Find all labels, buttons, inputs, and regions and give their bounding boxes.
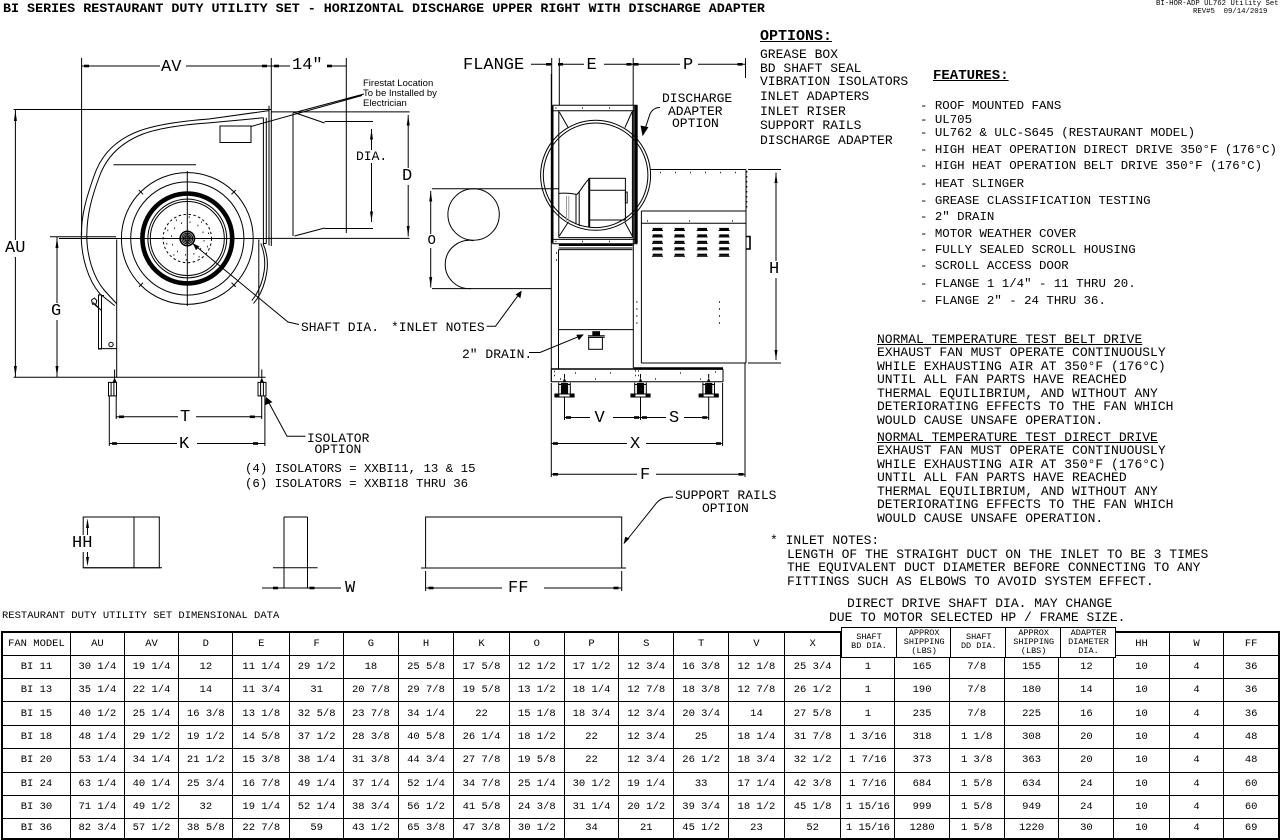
housing body verticals	[551, 74, 633, 382]
dim DIA	[371, 129, 373, 222]
firestat leaders	[251, 94, 364, 127]
dim X	[551, 383, 722, 446]
dim AU	[14, 110, 16, 378]
motor cover	[641, 170, 746, 364]
adapter corner gussets	[559, 112, 632, 236]
drain fitting	[592, 331, 600, 335]
rivet dot columns	[556, 253, 720, 323]
2in drain leader	[529, 335, 583, 353]
W channel section	[273, 517, 318, 568]
scroll top edge	[209, 111, 269, 123]
adapter bottom band	[559, 244, 633, 246]
base line	[14, 376, 266, 378]
pedestal	[117, 240, 259, 378]
dim O	[430, 191, 432, 288]
dim H	[748, 170, 781, 364]
dim V and S	[565, 397, 709, 420]
housing bottom	[551, 368, 633, 370]
hub circles	[180, 231, 194, 245]
base rail	[551, 369, 723, 382]
adapter circle	[541, 120, 651, 230]
dim G	[50, 237, 116, 377]
isolator feet	[109, 382, 117, 396]
shipping header box	[841, 627, 1116, 658]
adapter bottom plate	[552, 239, 637, 243]
title	[3, 2, 765, 15]
dim D extension lines	[268, 112, 410, 238]
dim W	[262, 587, 341, 589]
scroll inner top line	[114, 164, 197, 166]
dim D	[407, 115, 409, 237]
dim FLANGE/E/P line	[531, 63, 746, 65]
discharge adapter top plate	[552, 105, 637, 111]
adapter side bars	[551, 105, 553, 243]
dimensional data table	[1, 631, 1280, 840]
handle	[746, 237, 750, 250]
louver slots	[653, 228, 663, 230]
inlet notes leader	[487, 292, 521, 327]
discharge duct	[325, 122, 373, 229]
dim F	[551, 363, 745, 477]
discharge cone	[293, 113, 325, 236]
scroll right lower curve	[254, 244, 268, 304]
45 deg ticks on outer ring	[139, 190, 236, 287]
motor in circle	[588, 178, 590, 227]
inlet funnel	[559, 179, 590, 194]
dim T	[116, 396, 262, 419]
dim extension verticals	[552, 58, 746, 105]
outlet flange plates	[263, 106, 269, 246]
dim 14in	[271, 58, 346, 246]
adapter square panel	[559, 111, 633, 238]
discharge adapter option label	[644, 108, 660, 133]
shaft dia leader	[192, 243, 299, 325]
FF support rail	[426, 517, 622, 568]
dim FF	[426, 571, 622, 591]
fan centerlines	[59, 171, 272, 306]
inlet opening S-curve	[448, 189, 499, 240]
scroll housing outline	[81, 119, 209, 306]
inlet duct	[432, 189, 559, 289]
HH angle section	[83, 517, 159, 568]
dim HH	[87, 521, 89, 564]
firestat box	[220, 126, 251, 143]
fan inlet circles	[121, 173, 253, 305]
bolt dots	[166, 217, 209, 260]
dim AV	[82, 58, 272, 235]
AU top reference line	[14, 109, 271, 111]
support rails leader	[625, 497, 674, 543]
mounting feet	[559, 383, 571, 394]
drain shelf	[559, 329, 634, 331]
isolator option leader	[267, 399, 306, 436]
dim K	[109, 396, 265, 446]
motor bracket	[99, 295, 102, 349]
